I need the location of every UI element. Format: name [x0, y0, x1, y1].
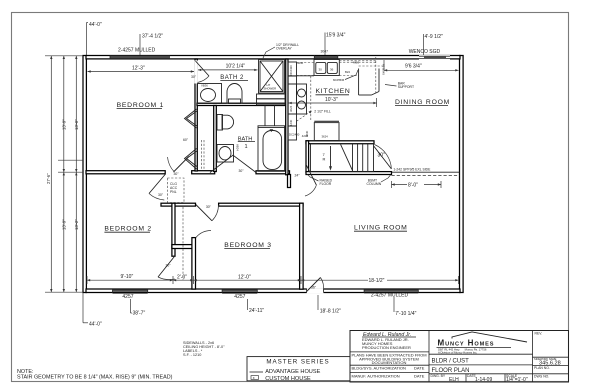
svg-text:10'-3": 10'-3" [325, 97, 338, 103]
svg-text:1: 1 [245, 144, 248, 150]
svg-text:2-4257 MULLED: 2-4257 MULLED [118, 48, 156, 54]
svg-text:MANUF. AUTHORIZATION: MANUF. AUTHORIZATION [352, 374, 400, 379]
svg-text:DATE: DATE [414, 374, 425, 379]
svg-text:1-14-09: 1-14-09 [475, 377, 492, 383]
svg-text:9'-10": 9'-10" [121, 274, 134, 280]
svg-text:F2 G945: F2 G945 [382, 64, 386, 75]
svg-text:30": 30" [166, 264, 172, 268]
svg-text:DINING ROOM: DINING ROOM [395, 99, 450, 106]
svg-text:R: R [323, 157, 326, 162]
svg-text:DWG NO.: DWG NO. [534, 375, 549, 379]
svg-text:S.F. - 1210: S.F. - 1210 [183, 353, 201, 357]
svg-text:BLDR / CUST: BLDR / CUST [432, 359, 470, 365]
svg-text:13'-9": 13'-9" [62, 119, 67, 130]
svg-text:30": 30" [174, 172, 180, 176]
svg-text:18'-8 1/2": 18'-8 1/2" [320, 309, 341, 315]
svg-text:30": 30" [239, 169, 245, 173]
svg-text:STAIR GEOMETRY TO BE 8 1/4" (M: STAIR GEOMETRY TO BE 8 1/4" (MAX. RISE) … [17, 375, 173, 381]
svg-text:4230: 4230 [297, 61, 304, 65]
svg-text:13'-0": 13'-0" [74, 119, 79, 130]
svg-text:BEDROOM 1: BEDROOM 1 [117, 102, 165, 109]
svg-text:30": 30" [206, 205, 212, 209]
svg-text:15'9 3/4": 15'9 3/4" [326, 33, 346, 39]
svg-text:8'-0": 8'-0" [408, 182, 418, 188]
svg-text:ADVANTAGE HOUSE: ADVANTAGE HOUSE [265, 369, 320, 375]
svg-text:3047: 3047 [321, 50, 329, 54]
svg-text:VB36: VB36 [201, 84, 208, 88]
svg-text:4257: 4257 [234, 294, 245, 300]
svg-text:1/4"=1'-0": 1/4"=1'-0" [506, 377, 528, 383]
svg-text:24'-11": 24'-11" [249, 308, 264, 314]
svg-text:30": 30" [378, 152, 386, 158]
svg-text:FLOOR PLAN: FLOOR PLAN [432, 368, 470, 374]
svg-text:OVERLAY: OVERLAY [276, 47, 293, 51]
svg-text:1230: 1230 [289, 119, 293, 126]
svg-text:DC2430: DC2430 [289, 133, 300, 137]
svg-text:PRODUCTION ENGINEER: PRODUCTION ENGINEER [362, 345, 411, 350]
svg-text:BLDG/SYS. AUTHORIZATION: BLDG/SYS. AUTHORIZATION [352, 365, 406, 370]
svg-text:38'-7": 38'-7" [133, 311, 146, 317]
svg-text:60": 60" [183, 138, 189, 142]
svg-text:12'-0": 12'-0" [238, 275, 251, 281]
svg-text:x: x [253, 376, 255, 380]
svg-text:7'-10 1/4": 7'-10 1/4" [395, 311, 416, 317]
svg-text:37'-4 1/2": 37'-4 1/2" [142, 34, 163, 40]
svg-text:13'-9": 13'-9" [62, 219, 67, 230]
svg-text:DATE: DATE [414, 365, 425, 370]
svg-text:2'-0": 2'-0" [177, 275, 187, 281]
svg-text:30": 30" [191, 75, 197, 79]
svg-text:4'-9 1/2": 4'-9 1/2" [425, 34, 444, 40]
svg-text:10'2 1/4": 10'2 1/4" [226, 64, 246, 70]
svg-text:2-4257 MULLED: 2-4257 MULLED [371, 292, 409, 298]
svg-text:4800: 4800 [353, 61, 360, 65]
svg-text:ELH: ELH [449, 377, 459, 383]
svg-text:24": 24" [295, 174, 301, 178]
svg-text:B24: B24 [345, 70, 350, 74]
svg-text:SUPPORT: SUPPORT [398, 85, 414, 89]
svg-text:4230: 4230 [302, 134, 309, 138]
svg-text:MCPB36: MCPB36 [333, 78, 345, 82]
svg-text:3624: 3624 [322, 135, 329, 139]
svg-text:PNL: PNL [170, 190, 177, 194]
svg-text:13'-2": 13'-2" [74, 219, 79, 230]
svg-text:18-1/2": 18-1/2" [369, 278, 385, 284]
svg-text:1-242 SPF9/5 EXL SIDE: 1-242 SPF9/5 EXL SIDE [393, 168, 431, 172]
svg-text:CUSTOM HOUSE: CUSTOM HOUSE [265, 376, 311, 382]
svg-text:3624: 3624 [289, 105, 293, 112]
svg-text:PLAN NO.: PLAN NO. [534, 366, 550, 370]
svg-text:WENCO SGD: WENCO SGD [409, 49, 441, 55]
svg-text:DC2430: DC2430 [289, 65, 293, 76]
svg-text:44'-0": 44'-0" [89, 22, 102, 28]
svg-text:9'6 3/4": 9'6 3/4" [405, 63, 422, 69]
svg-text:2 1/2" FILL: 2 1/2" FILL [314, 110, 331, 114]
svg-text:30": 30" [158, 193, 164, 197]
svg-text:DWG. BY: DWG. BY [431, 374, 446, 378]
svg-text:VB24: VB24 [236, 144, 240, 151]
svg-text:BEDROOM 3: BEDROOM 3 [224, 242, 272, 249]
svg-text:LIVING ROOM: LIVING ROOM [354, 225, 408, 232]
svg-text:12'-3": 12'-3" [132, 66, 145, 72]
svg-text:44'-0": 44'-0" [89, 322, 102, 328]
svg-text:KITCHEN: KITCHEN [316, 88, 351, 95]
svg-text:MASTER SERIES: MASTER SERIES [266, 358, 329, 365]
svg-text:27'-6": 27'-6" [46, 173, 51, 184]
svg-text:REV.: REV. [535, 332, 543, 336]
svg-text:30: 30 [319, 68, 323, 72]
svg-text:36: 36 [330, 68, 334, 72]
svg-text:36": 36" [311, 285, 317, 289]
svg-text:FLOOR: FLOOR [320, 182, 332, 186]
svg-text:COLUMN: COLUMN [367, 182, 382, 186]
svg-text:4257: 4257 [122, 294, 133, 300]
svg-text:SHOWER: SHOWER [264, 86, 277, 90]
svg-text:BEDROOM 2: BEDROOM 2 [104, 226, 152, 233]
